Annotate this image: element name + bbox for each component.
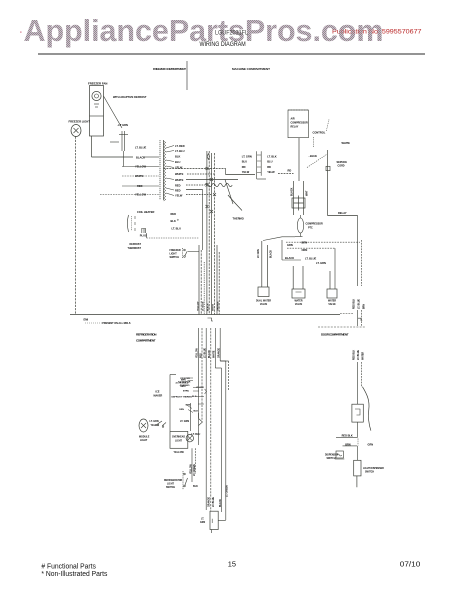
svg-text:SWITCH: SWITCH <box>170 256 180 259</box>
svg-text:LT. GREEN: LT. GREEN <box>194 464 196 476</box>
svg-text:ORN: ORN <box>302 248 308 252</box>
diagonal wire relay to service line <box>326 120 329 132</box>
defrost thermostat label <box>128 243 142 250</box>
svg-text:BRN: BRN <box>302 241 308 245</box>
svg-text:PLUG: PLUG <box>140 233 147 237</box>
svg-text:4 LTR MOLD: 4 LTR MOLD <box>176 382 189 385</box>
door switch box S5 <box>352 404 363 422</box>
svg-text:GRN: GRN <box>287 243 293 247</box>
wire down from red/blk <box>357 439 359 446</box>
svg-text:GRN: GRN <box>368 444 374 447</box>
door compartment boundary dashes <box>318 326 366 328</box>
bottom connector box P3 <box>200 511 226 533</box>
svg-text:LT. GRN: LT. GRN <box>242 155 252 159</box>
water valve V3 <box>327 271 337 306</box>
svg-text:LGUF2031FL: LGUF2031FL <box>215 31 249 37</box>
svg-text:BLACK: BLACK <box>136 156 145 160</box>
water valve V2 <box>292 266 305 306</box>
interconnect 4-pin connector P2 <box>242 151 294 179</box>
svg-text:ICE: ICE <box>156 391 160 394</box>
compressor motor C1 <box>295 215 323 237</box>
svg-text:REFRIGERATOR: REFRIGERATOR <box>164 479 183 482</box>
svg-text:WHITE: WHITE <box>342 141 351 145</box>
svg-text:REFRIGERATION: REFRIGERATION <box>136 333 157 337</box>
service cord line to relay <box>328 150 358 216</box>
svg-text:COMPARTMENT: COMPARTMENT <box>136 339 156 343</box>
svg-text:BLACK: BLACK <box>219 499 222 507</box>
svg-text:YELW: YELW <box>175 166 183 170</box>
diagonal wire to defrost heater <box>225 180 233 205</box>
svg-text:BLACK: BLACK <box>206 303 209 311</box>
svg-text:DUAL WATER: DUAL WATER <box>256 300 271 303</box>
connector J1 fan-out leads <box>166 146 174 196</box>
wire compressor to service cord <box>307 155 327 168</box>
svg-text:* Non-Illustrated Parts: * Non-Illustrated Parts <box>41 571 107 578</box>
lower bus wires (refrigeration) <box>199 328 229 520</box>
bus crossing connector marks at boundary <box>208 318 363 321</box>
svg-text:RED: RED <box>171 212 177 216</box>
svg-text:LT. GRN: LT. GRN <box>180 420 189 423</box>
svg-text:BLK: BLK <box>171 219 176 223</box>
svg-text:MAKER: MAKER <box>154 395 163 398</box>
svg-text:YELW: YELW <box>151 424 159 427</box>
svg-text:COMPRESSOR: COMPRESSOR <box>306 223 324 226</box>
compressor relay box K1 <box>288 110 308 138</box>
svg-text:ORN: ORN <box>179 409 184 411</box>
svg-text:VALVE: VALVE <box>260 303 268 306</box>
svg-text:YELLOW: YELLOW <box>197 347 199 358</box>
svg-text:MACHINE COMPARTMENT: MACHINE COMPARTMENT <box>232 67 270 71</box>
svg-text:WHITE: WHITE <box>175 178 184 182</box>
svg-text:FREEZER FAN: FREEZER FAN <box>88 82 107 86</box>
svg-text:WATER: WATER <box>328 300 336 303</box>
svg-text:RELAY: RELAY <box>291 126 299 129</box>
svg-text:WHT: WHT <box>306 190 309 196</box>
svg-text:07/10: 07/10 <box>400 560 421 569</box>
svg-text:VALVE: VALVE <box>328 303 336 306</box>
svg-text:YELLOW: YELLOW <box>197 301 199 311</box>
svg-text:COMPRESSOR: COMPRESSOR <box>291 122 309 125</box>
compartment boundary line <box>70 314 340 316</box>
scan speck <box>20 32 22 33</box>
defrost heater curve <box>228 195 242 211</box>
svg-text:YELW: YELW <box>175 194 183 198</box>
svg-text:RD: RD <box>267 165 271 169</box>
svg-text:BLK: BLK <box>193 485 198 488</box>
defrost coil heater H1 <box>127 210 154 232</box>
svg-text:RED BLK: RED BLK <box>354 298 356 309</box>
svg-text:COIL HEATER: COIL HEATER <box>137 210 154 214</box>
compartment divider line <box>186 61 188 90</box>
lower bus rotated labels top <box>197 347 221 358</box>
svg-text:YELLOW: YELLOW <box>190 463 192 474</box>
wires below lights <box>190 448 196 482</box>
main vertical wire bus <box>147 151 220 315</box>
lower rotated labels <box>208 485 229 507</box>
svg-text:LT. BLU: LT. BLU <box>192 433 201 436</box>
svg-text:LIGHT: LIGHT <box>167 484 174 486</box>
svg-text:CORD: CORD <box>338 165 345 168</box>
svg-text:BLK: BLK <box>175 155 180 159</box>
svg-text:RED: RED <box>201 353 203 358</box>
wire freezer light down to rail <box>75 137 77 315</box>
wire ice maker to overhead light <box>190 403 192 431</box>
svg-text:YELLOW: YELLOW <box>174 451 185 454</box>
ice maker assembly IM1 <box>154 375 207 432</box>
svg-text:LT. RED: LT. RED <box>175 144 185 148</box>
arrow top of bus <box>207 154 209 160</box>
svg-text:LT. BLU: LT. BLU <box>172 227 182 231</box>
rotated wire labels above boundary <box>197 301 219 311</box>
svg-text:ORANGE: ORANGE <box>218 347 221 358</box>
door harness labels below boundary <box>354 349 365 360</box>
svg-text:PRESENT ON ALL MDLS: PRESENT ON ALL MDLS <box>102 322 131 325</box>
svg-text:RELAY: RELAY <box>338 211 347 215</box>
svg-text:VALVE: VALVE <box>295 303 303 306</box>
svg-text:GRN: GRN <box>200 522 205 524</box>
header rule <box>38 53 425 55</box>
svg-text:RED: RED <box>175 184 181 188</box>
refrigerator light L2 <box>139 419 159 442</box>
refrigerator light switch S3 <box>164 471 198 490</box>
wire dispenser to light switch <box>357 446 359 460</box>
wire under red/blk <box>336 436 358 438</box>
svg-text:RED BLK: RED BLK <box>342 434 353 437</box>
svg-text:BLACK: BLACK <box>285 256 294 260</box>
svg-text:LIGHT DISPENSER: LIGHT DISPENSER <box>363 468 384 470</box>
svg-text:BLU: BLU <box>242 160 247 164</box>
svg-text:LT. BLUE: LT. BLUE <box>205 348 207 358</box>
svg-text:BRN: BRN <box>364 304 366 309</box>
svg-text:THERMOST: THERMOST <box>128 247 142 250</box>
svg-text:..BLUE: ..BLUE <box>309 154 318 158</box>
overhead light box L3 <box>170 431 200 448</box>
wire under brn <box>343 445 358 447</box>
svg-text:ORANGE: ORANGE <box>216 301 219 311</box>
wire color labels near bus <box>171 212 182 231</box>
door harness wires right <box>354 216 366 327</box>
freezer fan motor M1 <box>88 82 107 137</box>
svg-text:BLACK: BLACK <box>208 350 211 358</box>
svg-text:RED: RED <box>175 189 181 193</box>
door water tube curve <box>362 387 371 431</box>
svg-text:BLACK: BLACK <box>291 187 294 196</box>
svg-text:BRN: BRN <box>181 379 186 381</box>
connector J1 strip <box>160 140 166 201</box>
svg-text:WITH ADAPTIVE DEFROST: WITH ADAPTIVE DEFROST <box>113 95 147 99</box>
svg-text:BLU: BLU <box>267 160 272 164</box>
svg-text:15: 15 <box>228 560 236 569</box>
svg-text:WIRING DIAGRAM: WIRING DIAGRAM <box>200 42 246 48</box>
svg-text:DOOR COMPARTMENT: DOOR COMPARTMENT <box>321 333 349 337</box>
svg-text:AIR: AIR <box>291 118 295 121</box>
svg-text:THERMO: THERMO <box>233 217 244 221</box>
wire fan box down <box>91 136 93 157</box>
wires into connector left side with labels <box>100 146 159 197</box>
freezer light L1 <box>69 120 91 137</box>
svg-text:THRU: THRU <box>180 386 186 388</box>
svg-text:WHITE: WHITE <box>214 350 216 358</box>
refrigeration compartment label <box>136 333 157 343</box>
svg-text:BTRU: BTRU <box>183 391 189 393</box>
connector stub below LT GREEN <box>110 131 128 167</box>
svg-text:RED BLK: RED BLK <box>354 349 356 360</box>
svg-text:LT.: LT. <box>201 519 204 521</box>
svg-text:FREEZER COMPARTMENT: FREEZER COMPARTMENT <box>153 67 186 71</box>
svg-text:WATER: WATER <box>362 352 365 360</box>
svg-text:LT. GRN: LT. GRN <box>316 261 326 265</box>
heater plug P4 <box>140 229 147 238</box>
machine compartment lower dashed wires <box>263 237 360 289</box>
water valve V1 <box>256 241 272 306</box>
svg-text:LIGHT: LIGHT <box>140 439 148 442</box>
inline connector on service cord <box>326 166 330 170</box>
wire from fan to LT GREEN tap <box>104 96 123 128</box>
horizontal wires from connector to bus <box>164 169 256 251</box>
svg-text:LT. BLUE: LT. BLUE <box>305 256 316 260</box>
door light switch box S7 <box>354 460 384 487</box>
svg-text:OVERHEAD: OVERHEAD <box>172 436 185 439</box>
svg-text:..LT GRN: ..LT GRN <box>117 123 128 127</box>
svg-text:YELW: YELW <box>267 170 275 174</box>
svg-text:DISPENSER: DISPENSER <box>325 455 339 457</box>
connector chevron <box>199 419 203 426</box>
svg-text:FREEZER LIGHT: FREEZER LIGHT <box>69 120 91 124</box>
svg-text:LT. BLUE: LT. BLUE <box>358 350 360 360</box>
svg-text:SWITCH: SWITCH <box>327 458 336 460</box>
svg-text:EMI: EMI <box>84 318 89 322</box>
svg-text:SWITCH: SWITCH <box>365 472 374 474</box>
svg-text:Publication No: 5995570677: Publication No: 5995570677 <box>332 29 422 36</box>
svg-text:LT. BLU: LT. BLU <box>175 149 185 153</box>
svg-text:WHITE: WHITE <box>175 172 184 176</box>
svg-text:LT. GREEN: LT. GREEN <box>226 485 228 497</box>
svg-text:YELW: YELW <box>242 170 250 174</box>
overload protector OL1 <box>291 181 309 215</box>
freezer light switch S1 <box>170 248 188 259</box>
svg-text:LT. BLUE: LT. BLUE <box>213 497 215 507</box>
svg-text:# Functional Parts: # Functional Parts <box>41 564 96 571</box>
svg-text:RD: RD <box>288 169 292 173</box>
svg-text:DEFROST THERMO: DEFROST THERMO <box>172 397 193 399</box>
svg-text:LIGHT: LIGHT <box>175 441 182 443</box>
svg-text:LT. GRN: LT. GRN <box>258 249 260 258</box>
dispenser switch S6 <box>325 451 344 460</box>
dashed stub below control <box>312 137 314 147</box>
svg-text:PTC: PTC <box>308 227 313 230</box>
svg-text:LT. GRN: LT. GRN <box>150 420 159 423</box>
svg-text:WHITE: WHITE <box>213 303 215 311</box>
svg-text:ORANGE: ORANGE <box>208 496 211 507</box>
bus junction ticks <box>206 167 217 213</box>
svg-text:CONTROL: CONTROL <box>313 131 326 135</box>
svg-text:BLACK: BLACK <box>269 250 272 258</box>
door harness wires to switch <box>358 362 362 404</box>
svg-text:LT. BLUE: LT. BLUE <box>135 146 146 150</box>
EMI note <box>84 318 131 326</box>
svg-text:LT. BLK: LT. BLK <box>267 155 277 159</box>
svg-text:LT. BLUE: LT. BLUE <box>359 299 361 309</box>
connector J1 right-side wire labels <box>175 144 185 198</box>
svg-text:RD: RD <box>242 165 246 169</box>
svg-text:LT. BLUE: LT. BLUE <box>203 301 205 311</box>
svg-text:SWITCH: SWITCH <box>166 487 175 489</box>
svg-text:DEFROST: DEFROST <box>130 243 142 246</box>
svg-text:BLU: BLU <box>175 160 180 164</box>
wire relay box to overload <box>298 138 300 181</box>
svg-text:BLK: BLK <box>194 411 199 413</box>
svg-text:WATER: WATER <box>294 300 302 303</box>
light switch S2 <box>157 421 166 427</box>
